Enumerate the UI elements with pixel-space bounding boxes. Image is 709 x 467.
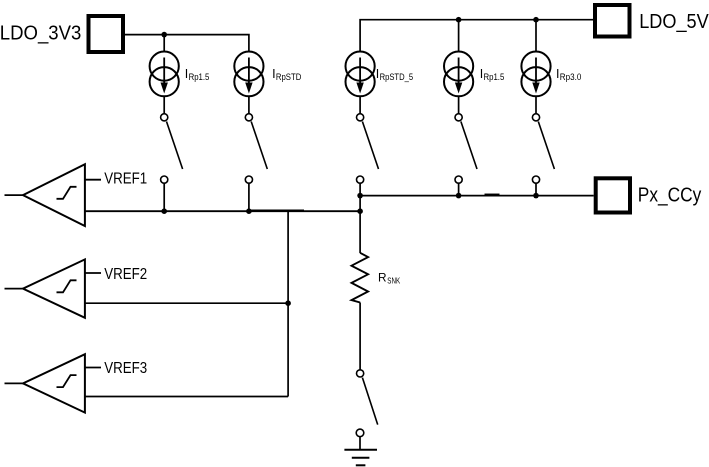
current source I4 (IRp1.5 5V): [444, 52, 473, 97]
wire S6 to ground: [359, 437, 361, 450]
wire Px_CCy bus: [360, 195, 594, 197]
wire drop to current source I1: [163, 35, 165, 51]
svg-text:Rp1.5: Rp1.5: [189, 72, 210, 82]
svg-text:Px_CCy: Px_CCy: [638, 183, 702, 206]
wire vertical link VREF bus: [287, 211, 289, 396]
comparator U2 (VREF2 threshold): [5, 259, 85, 317]
wire drop to current source I5: [535, 20, 537, 51]
node junction top rail / I4: [456, 17, 462, 23]
svg-text:SNK: SNK: [387, 275, 400, 285]
svg-text:R: R: [378, 270, 387, 284]
switch S3: [357, 114, 379, 196]
wire drop to current source I4: [458, 20, 460, 51]
svg-text:VREF1: VREF1: [104, 170, 147, 187]
current source I1 (IRp1.5 3V3): [150, 52, 179, 97]
resistor RSNK: [352, 253, 369, 303]
value label IRp1.5: [185, 67, 210, 82]
node junction VREF2 / vertical link: [285, 300, 291, 306]
wire LDO_3V3 top rail: [125, 35, 249, 51]
svg-text:RpSTD: RpSTD: [276, 72, 302, 82]
wire VREF3 output: [85, 396, 288, 398]
svg-text:RpSTD_5: RpSTD_5: [380, 72, 414, 82]
node junction S5 / bus: [533, 193, 539, 199]
pin VREF3: [85, 367, 101, 369]
switch S5: [532, 114, 554, 196]
node junction S3 / bus: [357, 193, 363, 199]
value label IRpSTD: [272, 67, 301, 82]
wire I3 (IRpSTD_5 5V) to switch S3: [359, 96, 361, 113]
svg-text:LDO_5V: LDO_5V: [639, 10, 709, 33]
wire I5 (IRp3.0 5V) to switch S5: [535, 96, 537, 113]
wire LDO_5V top rail: [360, 20, 593, 51]
wire overlap dash on Px_CCy bus: [485, 194, 500, 196]
wire I2 (IRpSTD 3V3) to switch S2: [248, 96, 250, 113]
switch S6 (sink enable): [356, 370, 378, 437]
comparator U3 (VREF3 threshold): [5, 354, 85, 412]
wire I1 (IRp1.5 3V3) to switch S1: [163, 96, 165, 113]
ground: [344, 450, 377, 466]
wire I4 (IRp1.5 5V) to switch S4: [458, 96, 460, 113]
pin VREF2: [85, 272, 101, 274]
wire VREF1 output bus: [85, 210, 360, 212]
node junction VREF1 bus / trunk: [357, 208, 363, 214]
value label RSNK: [378, 270, 400, 285]
comparator U1 (VREF1 threshold): [5, 164, 85, 226]
current source I5 (IRp3.0 5V): [521, 52, 550, 97]
node junction S4 / bus: [456, 193, 462, 199]
svg-text:LDO_3V3: LDO_3V3: [0, 21, 81, 44]
node junction top rail / I5: [533, 17, 539, 23]
value label IRpSTD_5: [376, 67, 413, 82]
current source I3 (IRpSTD_5 5V): [346, 52, 375, 97]
wire resistor to switch S6: [359, 303, 361, 370]
value label IRp3.0: [556, 67, 581, 82]
switch S4: [455, 114, 477, 196]
node junction top rail / I1: [161, 32, 167, 38]
svg-text:Rp3.0: Rp3.0: [560, 72, 582, 82]
port pad LDO_5V: [595, 5, 630, 37]
svg-text:VREF2: VREF2: [104, 266, 147, 283]
svg-text:VREF3: VREF3: [104, 360, 147, 377]
wire overlap segment on VREF1 bus: [249, 209, 304, 211]
current source I2 (IRpSTD 3V3): [234, 52, 263, 97]
node junction S2 / bus: [246, 208, 252, 214]
svg-text:Rp1.5: Rp1.5: [484, 72, 505, 82]
switch S1: [161, 114, 183, 211]
port pad Px_CCy: [596, 178, 630, 212]
port pad LDO_3V3: [89, 16, 124, 52]
value label IRp1.5: [480, 67, 505, 82]
node junction S1 / bus: [161, 208, 167, 214]
wire VREF2 output: [85, 302, 288, 304]
wire trunk to resistor: [359, 196, 361, 253]
switch S2: [245, 114, 267, 211]
pin VREF1: [85, 179, 101, 181]
